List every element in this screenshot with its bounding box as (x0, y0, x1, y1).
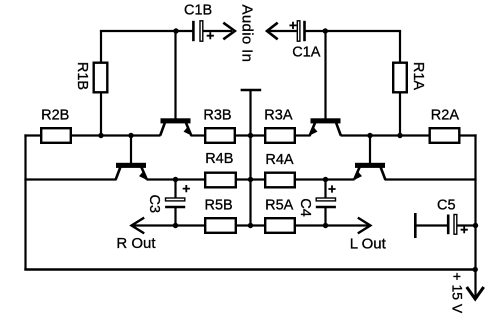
wire R1B bottom lead vertical (100, 93, 102, 136)
resistor R3B (205, 128, 235, 143)
wire C3 node to R4B (175, 178, 205, 180)
svg-text:C3: C3 (146, 195, 162, 214)
wire R2B to Q1B (71, 134, 161, 136)
polarity + for C1A (289, 22, 296, 29)
wire R3B to R3A (235, 134, 266, 136)
node input terminal crossbar (241, 89, 262, 91)
svg-text:R3B: R3B (203, 107, 231, 123)
svg-text:R5A: R5A (265, 197, 294, 213)
wire Q1A base lead vertical (324, 31, 326, 120)
resistor R5B (205, 218, 236, 233)
wire bottom rail horizontal (24, 268, 476, 270)
resistor R4A (265, 173, 295, 188)
wire R4B to R4A (236, 178, 265, 180)
wire Q2A emitter to right rail (385, 178, 477, 180)
terminal stub for C5 (414, 213, 417, 238)
resistor R5A (265, 218, 295, 233)
svg-text:+ 15 V: + 15 V (449, 272, 465, 314)
wire R4A to C4 node (295, 178, 326, 180)
polarity + for C4 (328, 185, 335, 192)
polarity + for C5 (461, 226, 468, 233)
polarity + for C3 (183, 185, 190, 192)
wire R1A bottom lead vertical (399, 93, 401, 136)
arrow L Out (points right) (358, 218, 371, 234)
wire R1A top lead vertical (399, 31, 401, 63)
wire Q1B emitter to R3B (191, 134, 206, 136)
resistor R2A (430, 128, 460, 143)
svg-text:R Out: R Out (116, 235, 156, 252)
wire right rail vertical (474, 134, 476, 298)
capacitor C5 (448, 215, 457, 235)
wire left rail vertical (24, 134, 26, 269)
transistor Q1A (310, 118, 341, 135)
junction dot C1A-Q1A node (323, 28, 328, 33)
transistor Q1B (160, 118, 191, 135)
svg-text:R1A: R1A (410, 62, 426, 91)
junction dot C4-row2 (323, 177, 328, 182)
svg-text:C1A: C1A (292, 44, 321, 60)
wire Q2A base lead vertical (369, 136, 371, 164)
svg-text:R4B: R4B (205, 151, 233, 167)
wire C1B to Audio In arrow (204, 30, 233, 32)
capacitor C3 (165, 198, 185, 207)
resistor R3A (265, 128, 295, 143)
junction dot R1B-row1 (98, 133, 103, 138)
wire center rail vertical (249, 90, 251, 226)
junction dot C1B-Q1B node (173, 28, 178, 33)
junction dot bottom-right corner (473, 267, 478, 272)
wire left rail to Q2B emitter (24, 178, 116, 180)
svg-text:R2A: R2A (431, 107, 460, 123)
wire R5B to R5A (236, 224, 265, 226)
wire Q2B base lead vertical (130, 136, 132, 164)
arrow +15V supply (points down) (467, 287, 484, 299)
resistor R4B (205, 173, 236, 188)
wire R2A to right rail (460, 134, 477, 136)
capacitor C1B (193, 21, 202, 41)
wire C4 bottom lead (324, 207, 326, 226)
svg-text:Audio In: Audio In (238, 5, 255, 63)
wire R1B top lead vertical (100, 31, 102, 63)
capacitor C1A (297, 21, 304, 41)
svg-text:R5B: R5B (205, 197, 233, 213)
svg-text:R2B: R2B (41, 107, 69, 123)
arrow R Out (points left) (132, 218, 145, 234)
wire R5A to L Out arrow (295, 224, 371, 226)
polarity + for C1B (207, 32, 214, 39)
svg-text:R4A: R4A (265, 152, 294, 168)
arrow Audio In right (points left) (267, 23, 278, 40)
svg-text:L Out: L Out (350, 235, 387, 252)
transistor Q2A (354, 163, 385, 180)
transistor Q2B (116, 163, 147, 180)
resistor R2B (41, 128, 71, 143)
resistor R1A (393, 63, 407, 93)
wire Q2B collector to C3 node (147, 178, 177, 180)
wire Q1B base lead vertical (174, 31, 176, 120)
wire C3 bottom lead (174, 207, 176, 226)
wire C5 right lead (458, 224, 476, 226)
junction dot center-row1 (248, 133, 253, 138)
wire Q1A to R2A (341, 134, 431, 136)
wire C4 top lead (324, 180, 326, 199)
junction dot C3-row2 (173, 177, 178, 182)
junction dot C5-right rail (473, 223, 478, 228)
wire top-left horizontal (C1B node to R1B corner) (100, 30, 193, 32)
wire C3 top lead (174, 180, 176, 199)
wire Audio In arrow to C1A (269, 30, 297, 32)
junction dot R1A-row1 (397, 133, 402, 138)
junction dot C4-row3 (323, 223, 328, 228)
wire R3A to Q1A (295, 134, 311, 136)
junction dot center-row2 (248, 177, 253, 182)
svg-text:C1B: C1B (184, 2, 212, 18)
junction dot Q2A base-row1 (367, 133, 372, 138)
arrow Audio In left (points right) (223, 23, 235, 40)
wire C4 node to Q2A (325, 178, 355, 180)
wire R Out to R5B (132, 224, 206, 226)
svg-text:R1B: R1B (74, 62, 90, 90)
svg-text:C4: C4 (297, 198, 313, 217)
junction dot Q2B base-row1 (128, 133, 133, 138)
junction dot center-row3 (248, 223, 253, 228)
wire C1A to R1A corner (top-right horizontal) (306, 30, 402, 32)
junction dot C3-row3 (173, 223, 178, 228)
wire C5 left lead (415, 224, 447, 226)
resistor R1B (94, 63, 108, 93)
svg-text:R3A: R3A (264, 107, 293, 123)
capacitor C4 (316, 198, 336, 207)
svg-text:C5: C5 (437, 197, 456, 213)
wire left rail to R2B (24, 134, 41, 136)
